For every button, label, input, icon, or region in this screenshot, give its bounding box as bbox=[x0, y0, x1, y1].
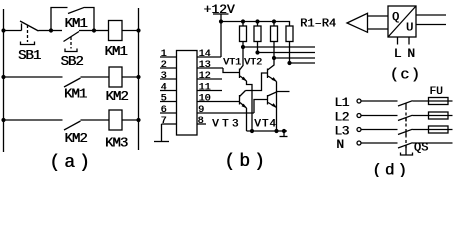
wire row3 coil to bus bbox=[122, 119, 139, 121]
node rail R2 bbox=[255, 19, 259, 23]
svg-text:2: 2 bbox=[160, 60, 166, 71]
node bus VT1 bbox=[250, 129, 254, 133]
arrow input bbox=[347, 13, 388, 32]
contact KM1 (NO, seal-in branch) bbox=[51, 7, 94, 30]
node output line 1 bbox=[241, 45, 245, 49]
wire row1 coil to bus bbox=[122, 30, 139, 32]
node row2 left bus junction bbox=[1, 75, 5, 79]
ground emitter bus bbox=[280, 131, 288, 137]
svg-text:13: 13 bbox=[198, 60, 210, 71]
svg-text:L: L bbox=[394, 46, 402, 61]
node output line 4 bbox=[287, 61, 291, 65]
svg-text:Q: Q bbox=[392, 10, 399, 24]
node rail R3 bbox=[272, 19, 276, 23]
wire L1 left bbox=[362, 100, 398, 102]
svg-text:N: N bbox=[336, 137, 344, 152]
wire output bottom bbox=[416, 24, 446, 26]
node row3 left bus junction bbox=[1, 118, 5, 122]
svg-text:FU: FU bbox=[429, 86, 442, 98]
svg-text:L2: L2 bbox=[334, 110, 349, 125]
wire row1 to coil bbox=[94, 30, 109, 32]
node bus VT2 bbox=[274, 129, 278, 133]
pin 11 bbox=[197, 83, 222, 94]
coil KM1 bbox=[109, 21, 123, 41]
wire emitter bus bbox=[247, 130, 288, 132]
pin 2 bbox=[160, 60, 177, 71]
pushbutton SB1 (NC) bbox=[20, 21, 51, 45]
wire row1 left segment bbox=[4, 30, 22, 32]
wire row1 mid segment bbox=[51, 30, 62, 32]
wire row2 left segment bbox=[4, 76, 63, 78]
coil KM3 bbox=[109, 110, 122, 130]
node row3 right bus junction bbox=[136, 118, 140, 122]
svg-text:KM3: KM3 bbox=[105, 136, 128, 152]
svg-text:R1–R4: R1–R4 bbox=[300, 17, 336, 31]
node output line 2 bbox=[255, 50, 259, 54]
node rail at drop bbox=[219, 19, 223, 23]
svg-text:U: U bbox=[406, 21, 413, 35]
svg-text:L1: L1 bbox=[334, 95, 349, 110]
svg-text:8: 8 bbox=[197, 116, 203, 127]
svg-text:(a): (a) bbox=[49, 153, 93, 173]
wire +12V drop bbox=[220, 14, 222, 22]
svg-text:9: 9 bbox=[198, 105, 204, 116]
svg-text:10: 10 bbox=[198, 94, 210, 105]
resistor R4 bbox=[286, 26, 293, 63]
svg-text:6: 6 bbox=[160, 105, 166, 116]
pin 13 bbox=[197, 60, 223, 71]
converter box U/Q bbox=[388, 6, 416, 37]
power +12V terminal bar bbox=[213, 13, 229, 15]
resistor R3 bbox=[271, 22, 278, 59]
svg-text:4: 4 bbox=[160, 83, 166, 94]
pin 9 bbox=[197, 105, 254, 116]
terminal L2 bbox=[357, 114, 361, 118]
contact KM2 (NO, row3) bbox=[64, 120, 109, 130]
coil KM2 bbox=[109, 67, 122, 87]
switch QS pole 4 bbox=[398, 143, 413, 149]
wire left bus bbox=[3, 9, 5, 152]
fuse FU1 bbox=[429, 98, 449, 105]
svg-text:SB1: SB1 bbox=[18, 48, 41, 64]
pin 6 bbox=[160, 105, 177, 116]
svg-text:VT2: VT2 bbox=[244, 58, 262, 69]
node row1 branch right bbox=[92, 28, 96, 32]
svg-text:VT1: VT1 bbox=[223, 58, 241, 69]
node row1 left bus junction bbox=[1, 28, 5, 32]
wire output line 3 bbox=[274, 57, 315, 59]
terminal L1 bbox=[357, 99, 361, 103]
node bus ground bbox=[282, 129, 286, 133]
node row1 right bus junction bbox=[136, 28, 140, 32]
wire row3 left segment bbox=[4, 119, 63, 121]
node row2 right bus junction bbox=[136, 75, 140, 79]
svg-text:5: 5 bbox=[160, 94, 166, 105]
pin 1 bbox=[160, 49, 177, 60]
svg-text:N: N bbox=[407, 46, 415, 61]
wire node2 horizontal bbox=[246, 73, 268, 91]
wire right bus bbox=[138, 8, 140, 150]
wire pin9 to VT4 base bbox=[254, 100, 268, 114]
wire pin13 to VT1 base bbox=[223, 68, 240, 73]
transistor VT1 bbox=[240, 47, 253, 131]
wire output line 1 bbox=[243, 46, 315, 48]
switch QS pole 3 bbox=[398, 129, 413, 135]
svg-text:KM1: KM1 bbox=[104, 44, 127, 60]
wire output top bbox=[416, 14, 446, 16]
transistor VT4 bbox=[268, 92, 290, 108]
pin 7 bbox=[160, 116, 176, 127]
svg-text:KM2: KM2 bbox=[64, 131, 87, 147]
resistor R1 bbox=[240, 22, 247, 48]
terminal N bbox=[357, 141, 361, 145]
switch QS pole 1 bbox=[398, 101, 413, 107]
svg-text:12: 12 bbox=[198, 71, 210, 82]
pin 14 bbox=[197, 49, 221, 60]
fuse FU2 bbox=[429, 112, 449, 119]
pin 10 bbox=[197, 94, 240, 105]
transistor VT3 bbox=[240, 91, 248, 132]
node output line 3 bbox=[272, 56, 276, 60]
svg-text:1: 1 bbox=[160, 49, 166, 60]
node row1 branch left bbox=[49, 28, 53, 32]
pushbutton SB2 (NO) bbox=[64, 31, 95, 52]
svg-text:(d): (d) bbox=[372, 162, 410, 178]
wire L2 left bbox=[362, 115, 398, 117]
svg-text:(b): (b) bbox=[224, 152, 268, 172]
wire L3 right bbox=[413, 129, 453, 131]
svg-text:VT4: VT4 bbox=[254, 119, 277, 131]
wire L2 right bbox=[413, 115, 453, 117]
svg-text:KM1: KM1 bbox=[64, 87, 87, 103]
pin 8 bbox=[197, 116, 206, 127]
wire L1 right bbox=[413, 100, 453, 102]
fuse FU3 bbox=[429, 126, 449, 133]
pin 3 bbox=[160, 71, 177, 82]
switch QS pole 2 bbox=[398, 115, 413, 121]
wire +12V rail bbox=[221, 22, 290, 27]
switch QS linkage bbox=[405, 107, 407, 148]
pin 5 bbox=[160, 94, 177, 105]
svg-text:+12V: +12V bbox=[203, 2, 234, 17]
IC U1 bbox=[177, 51, 198, 136]
switch QS handle bbox=[401, 149, 413, 155]
svg-text:11: 11 bbox=[198, 83, 210, 94]
wire output line 2 bbox=[258, 52, 316, 54]
wire row2 coil to bus bbox=[122, 76, 139, 78]
svg-text:3: 3 bbox=[160, 71, 166, 82]
svg-text:KM2: KM2 bbox=[105, 89, 128, 105]
resistor R2 bbox=[254, 22, 261, 53]
svg-text:14: 14 bbox=[198, 49, 210, 60]
svg-text:KM1: KM1 bbox=[64, 16, 87, 32]
pin 12 bbox=[197, 71, 222, 82]
contact KM1 (NO, row2) bbox=[64, 77, 109, 87]
ground IC pin7 bbox=[154, 124, 169, 142]
transistor VT2 bbox=[268, 58, 278, 131]
wire N stub bbox=[408, 37, 410, 45]
wire L stub bbox=[397, 37, 399, 45]
svg-text:SB2: SB2 bbox=[60, 54, 83, 70]
wire L3 left bbox=[362, 129, 398, 131]
wire N right bbox=[413, 142, 453, 144]
wire pin14 to rail bbox=[220, 22, 222, 58]
wire N left bbox=[362, 142, 398, 144]
terminal L3 bbox=[357, 128, 361, 132]
node rail R1 bbox=[241, 19, 245, 23]
svg-text:VT3: VT3 bbox=[212, 119, 242, 131]
svg-text:(c): (c) bbox=[390, 67, 422, 84]
wire output line 4 bbox=[290, 62, 316, 64]
pin 4 bbox=[160, 83, 177, 94]
